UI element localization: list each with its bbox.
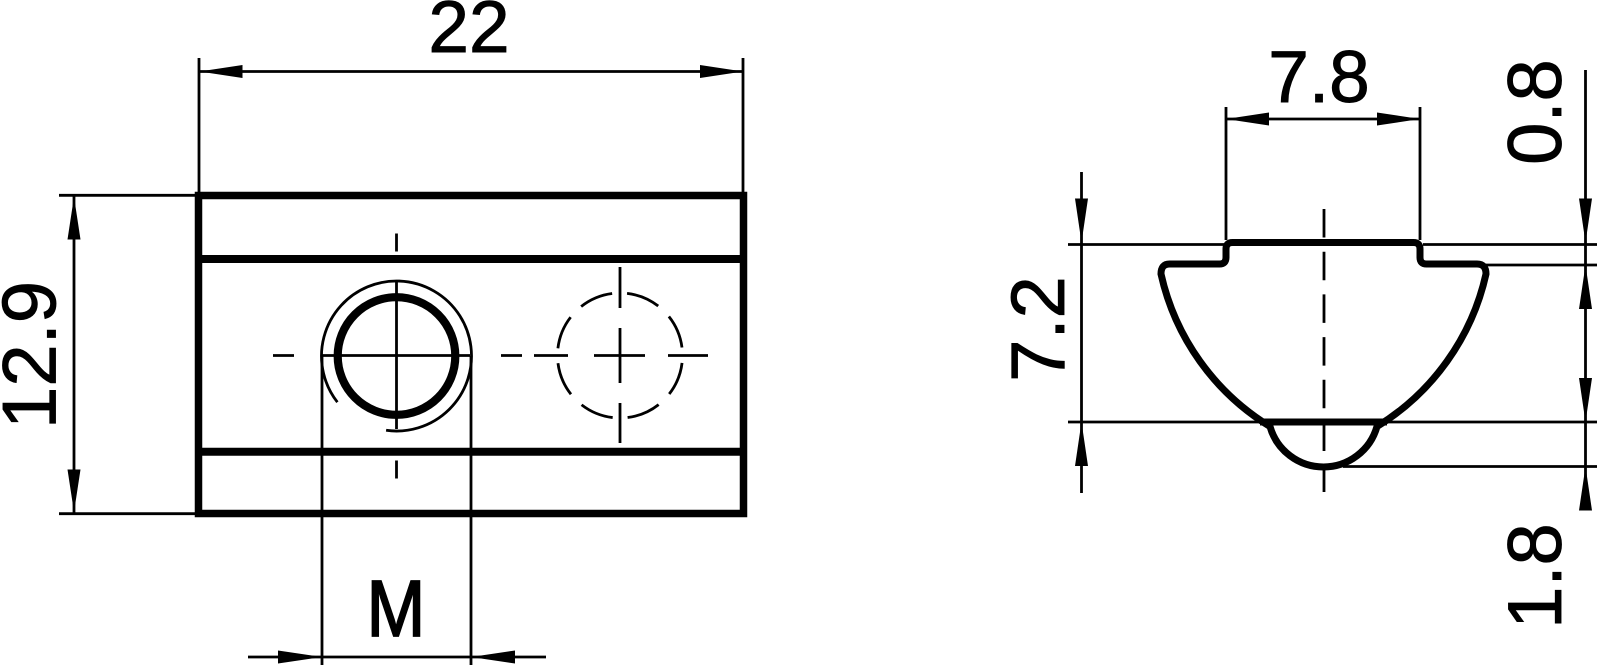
dimension 1.8 arrows <box>1579 378 1592 422</box>
dimension 22 <box>199 58 743 192</box>
dimension 12.9 <box>59 195 196 513</box>
upper edge line of flat <box>199 255 744 263</box>
hole2 hidden circle <box>558 293 683 418</box>
dimension 7.2 <box>1068 172 1232 493</box>
svg-text:M: M <box>367 564 426 653</box>
nut body outline <box>199 196 744 514</box>
right dimension chain line <box>1584 70 1587 505</box>
svg-text:7.8: 7.8 <box>1268 37 1369 118</box>
svg-text:22: 22 <box>428 0 509 68</box>
bump chord line <box>1260 419 1387 426</box>
profile centerline <box>1323 209 1326 492</box>
hole1 vertical centerline <box>395 234 398 479</box>
extension lines right <box>1343 245 1597 467</box>
svg-text:12.9: 12.9 <box>0 281 73 429</box>
thread hole minor circle <box>338 297 456 415</box>
svg-text:7.2: 7.2 <box>996 276 1081 382</box>
dimension 0.8 arrows <box>1579 199 1592 243</box>
dimension M <box>248 356 546 665</box>
lower edge line of flat <box>199 448 744 456</box>
thread hole major arc <box>322 281 472 431</box>
profile outline <box>1161 243 1486 467</box>
dimension 7.8 <box>1226 107 1420 240</box>
horizontal centerline <box>273 354 708 357</box>
svg-text:1.8: 1.8 <box>1493 523 1578 629</box>
svg-text:0.8: 0.8 <box>1493 59 1578 165</box>
hole2 vertical centerline <box>619 267 622 443</box>
long extension line y=421.5 <box>1068 421 1597 424</box>
